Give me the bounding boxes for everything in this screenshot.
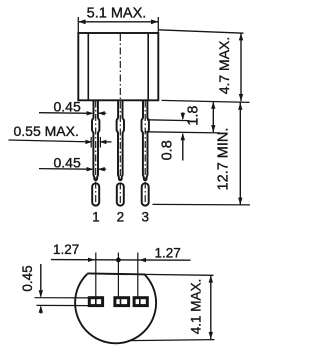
svg-text:1: 1: [92, 210, 100, 225]
svg-text:0.45: 0.45: [54, 98, 81, 114]
svg-text:4.1 MAX.: 4.1 MAX.: [188, 279, 203, 335]
extension vertical bottom lead2: [117, 253, 119, 306]
lead1 center mark: [95, 299, 97, 306]
centerline lead 2: [119, 34, 121, 207]
leader 0.45 lower: [39, 168, 92, 171]
bottom lead 3 cross-section: [134, 298, 147, 306]
reference line rect bottom: [37, 304, 90, 306]
arrow down 4.7: [239, 94, 243, 101]
arrow down 0.8 top: [182, 112, 184, 119]
arrow left at bottom lead3: [139, 258, 146, 262]
arrow left at lead1 row1: [98, 111, 105, 115]
reference line bulge bottom: [145, 132, 221, 133]
lead 3: [142, 100, 149, 205]
dimension line 5.1: [78, 21, 158, 23]
lead3 center mark: [139, 299, 141, 306]
svg-text:4.7 MAX.: 4.7 MAX.: [216, 37, 232, 95]
svg-text:0.45: 0.45: [20, 265, 35, 291]
leader 0.45 upper: [39, 112, 92, 115]
arrow right 5.1: [151, 19, 158, 24]
bottom view circular body: [75, 274, 156, 343]
tail right row1: [98, 112, 106, 114]
dimension line 0.45 upper part: [40, 264, 42, 297]
arrow down 0.45: [39, 290, 43, 297]
extension vertical bottom lead3: [137, 253, 139, 306]
svg-text:2: 2: [117, 210, 125, 225]
tick right 0.55: [99, 137, 101, 148]
bottom lead 2 cross-section: [115, 298, 129, 306]
arrow down 4.1: [209, 332, 213, 339]
svg-text:1.27: 1.27: [155, 246, 181, 261]
arrow down 1.8: [211, 125, 215, 132]
svg-text:5.1 MAX.: 5.1 MAX.: [87, 6, 147, 22]
svg-text:12.7 MIN.: 12.7 MIN.: [216, 128, 232, 191]
svg-text:1.8: 1.8: [185, 106, 201, 126]
arrow up 1.8: [211, 102, 215, 109]
centerline lead 1: [95, 101, 97, 207]
lead 2: [117, 100, 124, 205]
arrow right at bottom lead1: [88, 258, 95, 262]
reference line bulge top: [147, 119, 190, 122]
centerline lead 3: [144, 101, 146, 207]
arrow up 4.1: [209, 275, 213, 282]
svg-text:1.27: 1.27: [53, 242, 79, 257]
dimension line 12.7: [239, 102, 241, 204]
extension line circle bottom: [130, 340, 215, 341]
junction dot at bottom lead2: [116, 258, 121, 263]
dimension line 4.7: [240, 33, 242, 101]
arrow up 0.45: [39, 306, 43, 313]
extension line left of 5.1: [77, 17, 79, 33]
tick left 0.55: [90, 137, 92, 148]
arrow right at lead1 row3: [87, 167, 94, 171]
svg-text:0.45: 0.45: [54, 154, 81, 170]
body inner edge left: [87, 34, 89, 100]
extension line flat top right: [144, 273, 214, 276]
arrow up 0.8 bottom: [182, 134, 184, 161]
extension line body bottom right: [162, 100, 250, 102]
arrow left at lead1 row3: [98, 167, 105, 171]
package body (front view): [78, 33, 158, 100]
lead 1: [92, 100, 99, 205]
dimension line 0.45 lower tail: [40, 307, 42, 314]
lead2 center mark: [120, 299, 122, 306]
dimension line 1.27: [51, 259, 191, 262]
arrow down 12.7: [238, 198, 242, 205]
extension vertical bottom lead1: [95, 253, 97, 306]
extension line lead tips: [153, 203, 251, 206]
dimension line 4.1: [210, 275, 212, 339]
dimension line 1.8: [212, 102, 214, 133]
svg-text:0.8: 0.8: [160, 140, 176, 160]
arrow up 12.7: [238, 103, 242, 110]
arrow right at lead1 row1: [87, 111, 94, 115]
extension line body top right: [158, 30, 243, 33]
bottom view flat edge: [87, 273, 144, 274]
arrow left at lead1 row2: [100, 140, 107, 144]
tail right row2: [100, 141, 112, 143]
extension line right of 5.1: [157, 17, 159, 33]
svg-text:3: 3: [142, 210, 150, 225]
arrow right at lead1 row2: [85, 140, 92, 144]
arrow up 4.7: [239, 33, 243, 40]
reference line rect top: [35, 297, 91, 299]
bottom lead 1 cross-section: [89, 298, 102, 306]
leader 0.55: [9, 140, 91, 142]
arrow left 5.1: [78, 19, 85, 24]
svg-text:0.55 MAX.: 0.55 MAX.: [14, 123, 79, 139]
body inner edge right: [147, 34, 149, 100]
tail right row3: [98, 168, 106, 170]
